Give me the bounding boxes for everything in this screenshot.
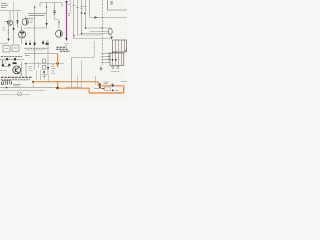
component blob x9: [8, 64, 10, 66]
note text top-left: [1, 4, 8, 8]
marks in boxes: [5, 47, 18, 50]
diode D4: [110, 37, 112, 40]
wire horizontal y90.6: [0, 90, 45, 92]
transistor Q1: [8, 20, 13, 25]
U1 pin dots: [112, 52, 113, 53]
label text band bottom-left row1: [1, 76, 32, 78]
wire vertical x48 upper: [47, 40, 49, 54]
bus wire 1: [73, 0, 75, 39]
dashed vertical x102.3: [101, 0, 103, 66]
small vertical wires above bottom band: [37, 70, 49, 82]
wire vertical to Q1: [9, 11, 11, 20]
wire vertical x94: [93, 41, 95, 58]
label 2N404 right: [104, 82, 109, 84]
label right of Q2: [30, 21, 33, 23]
wire D1 branch: [18, 11, 22, 32]
junction dot orange net: [57, 62, 59, 64]
wire horizontal y59.5: [0, 59, 24, 61]
label below y53.5: [25, 54, 30, 56]
small box y88 right: [105, 87, 111, 90]
wire horizontal y35: [78, 34, 103, 36]
resistor R10: [43, 59, 46, 63]
node dot Q1 base: [4, 21, 8, 23]
orange wire bottom horizontal: [89, 92, 124, 94]
wire vertical x70.5: [70, 0, 72, 12]
labels right of x48: [52, 64, 56, 73]
diode D2: [45, 23, 47, 26]
node dot y87.6: [6, 87, 8, 89]
wire Q4 top: [21, 28, 23, 31]
U1 input stub 4: [101, 62, 110, 64]
node dot x26: [25, 63, 26, 64]
wire vertical x26: [25, 64, 27, 79]
wire horizontal y28: [86, 27, 110, 29]
label small left: [3, 28, 6, 30]
diode D6: [12, 28, 14, 31]
wire vertical x5.5: [5, 60, 7, 64]
wire y70.5 left: [0, 70, 7, 72]
wire Q1 emitter down: [8, 25, 10, 28]
highlighted net purple vertical: [66, 1, 68, 38]
node dot x46.5: [46, 6, 47, 7]
orange wire main horizontal: [33, 81, 98, 83]
arrow on y17.5 wire: [95, 16, 98, 19]
orange wire jog x98.2: [97, 82, 99, 86]
node dot dashed crossing: [102, 17, 103, 18]
gray vertical x95.5 low: [95, 76, 97, 85]
orange junction dot: [57, 87, 59, 89]
diode D1: [16, 20, 18, 23]
wire vertical left x8.5: [8, 29, 10, 39]
component cluster bottom-left: [2, 81, 12, 85]
diode D7: [47, 67, 49, 70]
wire vertical x21.5 low: [21, 62, 23, 76]
arrow on Q3 stem: [58, 22, 60, 24]
bus wire 2: [77, 0, 79, 35]
label above Q2: [25, 13, 47, 18]
U1 input stub 1: [101, 53, 110, 55]
wire horizontal y38.5: [74, 38, 111, 40]
bus labels: [68, 5, 87, 9]
text row y49.8 mid-left: [26, 49, 45, 51]
component marks x112 y85: [111, 84, 114, 88]
box top-right: [108, 0, 128, 10]
wire vertical x13.5: [13, 25, 15, 44]
wire vertical x13.8: [13, 2, 15, 25]
wire horizontal y53.5: [24, 53, 58, 55]
U1 internal diodes: [111, 59, 116, 61]
wire vertical x48: [47, 55, 49, 75]
arrow mark on x34.7: [34, 7, 36, 9]
node dot crossing: [102, 27, 104, 29]
orange wire right vertical: [123, 86, 125, 93]
wire collector Q3: [58, 20, 60, 30]
wire horizontal y87.6: [0, 87, 58, 89]
mark left of bus: [68, 14, 70, 16]
transistor Q5: [13, 66, 21, 74]
relay box K2: [12, 45, 19, 52]
gray wire y88.5 right: [94, 88, 106, 90]
marks below U1: [112, 67, 120, 70]
stubs above squares: [26, 40, 47, 43]
wire C1 to Q3: [55, 15, 60, 20]
transistor Q2: [22, 19, 28, 25]
wire horizontal y63.5: [24, 63, 64, 65]
label text band bottom-left row2: [1, 79, 30, 81]
capacitor C1 stem: [54, 3, 56, 11]
label below U1: [111, 71, 120, 73]
label in top-right box: [110, 2, 113, 4]
transistor Q3: [56, 30, 63, 37]
resistor marks on x8.5: [8, 31, 10, 34]
bus wire 5: [89, 0, 91, 18]
mark below R11: [43, 71, 44, 73]
wire Q5 emitter: [20, 73, 22, 76]
U1 input stub 2: [101, 56, 110, 58]
orange wire y88: [58, 87, 90, 89]
U1 stub dots: [108, 53, 109, 54]
transistor Q4: [18, 31, 25, 38]
caps labels bottom-left: [2, 80, 11, 82]
bus wire 4: [85, 0, 87, 28]
labels below y63.5 left: [29, 67, 33, 71]
tiny labels near x44 y75: [42, 75, 47, 77]
text row y48 mid-left: [25, 47, 48, 49]
wire vertical x46.5: [46, 3, 48, 29]
wire horizontal y33.5: [82, 33, 110, 35]
wire Q4 bottom: [21, 38, 23, 44]
diode D3 oval: [108, 28, 112, 35]
orange wire step down x89.2: [88, 88, 90, 93]
wire into Q5: [3, 66, 9, 68]
wire vertical x33.2 low: [32, 82, 34, 88]
dark text cluster mid: [56, 47, 70, 51]
faint label far right: [121, 80, 127, 82]
relay box K1: [3, 46, 10, 53]
orange net start dot: [32, 81, 34, 83]
label right of caps: [13, 84, 21, 86]
orange wire y85.8: [98, 85, 124, 87]
text row y56 left: [1, 56, 22, 58]
capacitor C1: [53, 11, 56, 15]
wire vertical x34.5: [34, 5, 36, 70]
transistor Q6 cluster: [99, 83, 101, 88]
wire base rail Q row: [24, 27, 47, 29]
label right of R10: [38, 62, 40, 68]
orange wire mid vertical: [57, 82, 59, 89]
U1 label: [124, 50, 127, 52]
wire horizontal y31.5: [90, 31, 109, 33]
component row squares: [25, 42, 47, 46]
gray vertical x81.5 low: [81, 60, 83, 87]
wire horizontal y43.5 left: [0, 43, 8, 45]
label below purple: [65, 44, 69, 46]
node dot corner y28: [85, 27, 87, 29]
wire horizontal y17.5: [90, 17, 128, 19]
bus wire 3: [81, 0, 83, 34]
node dot bus: [81, 12, 83, 14]
node dot x112.7 y90.3: [112, 89, 114, 91]
pilot lamp circle: [18, 92, 22, 96]
IC box U2 upper: [113, 40, 127, 52]
U1 internal elements: [113, 53, 122, 65]
purple marker small: [73, 34, 75, 36]
wire horizontal y94.6: [0, 94, 30, 96]
component blob above Q5: [13, 62, 17, 64]
wire horizontal y57.5: [72, 57, 95, 59]
component R20 left of Q5: [2, 60, 4, 67]
ground symbol left of U1: [100, 66, 103, 71]
wire vertical x71.5: [71, 58, 73, 88]
diode D5: [7, 39, 9, 42]
wire top-left horizontal: [0, 10, 22, 12]
node dot corner y33.5: [81, 33, 83, 35]
purple probe arrowhead: [65, 38, 67, 41]
U1 input stub 3: [101, 59, 110, 61]
node dot purple top: [66, 1, 68, 3]
orange wire upper vertical: [57, 54, 59, 68]
wire top rail: [40, 3, 62, 8]
resistor R11: [43, 65, 46, 70]
IC box U1: [110, 53, 124, 65]
gray vertical x77.5 low: [77, 75, 79, 87]
node dot y88.5: [102, 88, 104, 90]
component mark x48 top: [47, 43, 49, 45]
component marks on y59.5: [6, 58, 16, 61]
label right of node: [115, 89, 119, 91]
gray wire y87.3 mid-right: [66, 86, 82, 88]
